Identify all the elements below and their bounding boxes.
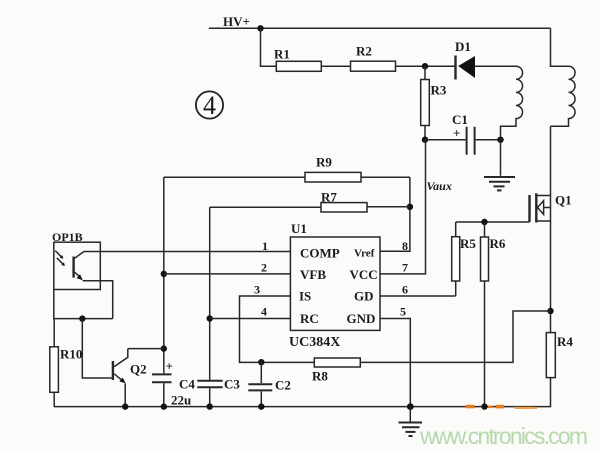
node GND bottom junction bbox=[407, 403, 414, 410]
svg-text:+: + bbox=[166, 359, 173, 374]
inductor secondary winding T1b bbox=[551, 66, 576, 126]
svg-text:R7: R7 bbox=[321, 190, 337, 205]
node R3/C1/Vaux junction bbox=[422, 137, 428, 143]
resistor R3 bbox=[421, 80, 430, 126]
node pin2 junction bbox=[161, 271, 167, 277]
label circled 4 bbox=[196, 91, 223, 120]
capacitor C1 bbox=[467, 127, 475, 155]
wire C4 bottom stem bbox=[163, 383, 165, 406]
resistor R8 bbox=[314, 358, 360, 367]
svg-text:R9: R9 bbox=[316, 155, 332, 170]
capacitor C3 bbox=[197, 381, 222, 388]
svg-text:OP1B: OP1B bbox=[52, 230, 83, 244]
resistor R7 bbox=[321, 203, 367, 212]
svg-text:VFB: VFB bbox=[300, 267, 326, 282]
svg-text:7: 7 bbox=[402, 261, 408, 275]
node R10/Q2 base junction bbox=[79, 315, 85, 321]
wire Q2 collector to VFB bus bbox=[128, 348, 164, 350]
svg-text:C3: C3 bbox=[224, 377, 240, 392]
resistor R10 bbox=[50, 319, 59, 407]
resistor R1 bbox=[276, 61, 321, 71]
wire pin 5 GND leg bbox=[380, 319, 410, 407]
wire pin 1 COMP bbox=[84, 251, 290, 253]
node R7/R9 right junction bbox=[407, 204, 413, 210]
resistor R9 bbox=[305, 172, 361, 182]
svg-text:5: 5 bbox=[400, 305, 406, 319]
svg-text:R8: R8 bbox=[312, 369, 328, 384]
svg-text:1: 1 bbox=[262, 239, 268, 253]
wire RC vertical bus bbox=[209, 207, 211, 379]
wire D1 to primary winding bbox=[475, 65, 516, 67]
svg-text:4: 4 bbox=[261, 305, 267, 319]
svg-text:R4: R4 bbox=[557, 334, 573, 349]
node C4 bottom junction bbox=[161, 403, 167, 409]
wire pin 8 Vref leg bbox=[380, 177, 410, 251]
resistor R5 bbox=[452, 237, 460, 281]
wire R3 bottom stem bbox=[424, 126, 426, 140]
inductor primary winding T1a bbox=[501, 66, 523, 140]
svg-text:RC: RC bbox=[300, 311, 319, 326]
node gate/R6 junction bbox=[481, 219, 487, 225]
svg-text:2: 2 bbox=[261, 261, 267, 275]
resistor R2 bbox=[351, 61, 396, 71]
wire R3 top stem bbox=[424, 66, 426, 79]
wire HV+ top rail bbox=[209, 27, 551, 29]
wire R8 left lead bbox=[261, 361, 314, 363]
capacitor C2 bbox=[248, 384, 272, 390]
node R3 top junction bbox=[422, 63, 428, 69]
node Q1 source/R4 junction bbox=[547, 308, 553, 314]
svg-text:COMP: COMP bbox=[300, 246, 340, 261]
wire pin 4 RC bbox=[210, 318, 291, 320]
svg-text:HV+: HV+ bbox=[223, 14, 250, 29]
node pin4 junction bbox=[207, 315, 213, 321]
wire top rail drop to secondary winding bbox=[551, 28, 569, 66]
optocoupler light arrow 2 bbox=[57, 258, 65, 266]
wire HV+ drop to R1 row bbox=[261, 28, 277, 66]
wire C1 right lead bbox=[476, 139, 501, 141]
node C2 bottom junction bbox=[258, 403, 264, 409]
wire pin 2 VFB bbox=[164, 273, 291, 275]
wire R6 top stem bbox=[484, 222, 486, 237]
svg-text:GND: GND bbox=[347, 311, 376, 326]
node Q2 emitter bottom junction bbox=[122, 403, 128, 409]
node C3 bottom junction bbox=[207, 403, 213, 409]
node C1/primary-bottom junction bbox=[497, 137, 503, 143]
wire current-sense feedback to R8 bbox=[360, 311, 550, 362]
svg-text:Vaux: Vaux bbox=[427, 179, 452, 193]
wire Q2 base drop bbox=[82, 319, 112, 378]
svg-text:UC384X: UC384X bbox=[289, 335, 340, 350]
wire Q1 gate run bbox=[456, 221, 530, 223]
transistor Q1 bbox=[530, 193, 551, 222]
wire R1 to R2 bbox=[321, 65, 350, 67]
svg-text:www.cntronics.com: www.cntronics.com bbox=[419, 423, 587, 449]
svg-text:IS: IS bbox=[299, 289, 311, 304]
node Q2 collector/C4 junction bbox=[161, 345, 167, 351]
svg-text:4: 4 bbox=[203, 91, 216, 120]
optocoupler OP1B box bbox=[54, 242, 101, 289]
svg-text:D1: D1 bbox=[455, 39, 471, 54]
wire R2 to D1 bbox=[396, 65, 456, 67]
wire R5 bottom to pin6 row bbox=[455, 281, 457, 296]
wire gate to R5 top bbox=[455, 222, 457, 237]
wire pin 6 GD bbox=[380, 295, 456, 297]
wire opto emitter lead bbox=[83, 281, 113, 319]
optocoupler phototransistor bbox=[74, 252, 84, 281]
svg-text:R3: R3 bbox=[431, 83, 447, 98]
capacitor C4 bbox=[152, 374, 172, 382]
wire pin 7 VCC leg / Vaux bus bbox=[380, 140, 426, 274]
resistor R6 bbox=[481, 237, 489, 281]
wire VFB vertical bus bbox=[163, 177, 165, 373]
transistor Q2 bbox=[113, 349, 128, 384]
svg-text:GD: GD bbox=[354, 289, 374, 304]
svg-text:8: 8 bbox=[402, 239, 408, 253]
svg-text:22u: 22u bbox=[171, 393, 191, 408]
wire C2 bottom stem bbox=[260, 391, 262, 406]
node IS/R8/C2 junction bbox=[258, 359, 264, 365]
optocoupler light arrow 1 bbox=[55, 251, 63, 259]
svg-text:R1: R1 bbox=[274, 47, 290, 62]
wire C2 top stem bbox=[260, 362, 262, 383]
svg-text:Q2: Q2 bbox=[130, 362, 147, 377]
svg-text:R5: R5 bbox=[460, 236, 476, 251]
svg-text:C4: C4 bbox=[179, 377, 195, 392]
svg-text:Q1: Q1 bbox=[555, 193, 572, 208]
wire C1 node to ground bbox=[500, 140, 502, 176]
ground main bbox=[399, 407, 423, 436]
wire opto box to R10 rail bbox=[54, 290, 113, 319]
wire R7 right lead bbox=[367, 206, 410, 208]
resistor R4 bbox=[546, 333, 555, 378]
op-amp U1 box bbox=[290, 237, 380, 330]
wire secondary bottom to Q1 drain and down to R4 bbox=[550, 126, 552, 332]
svg-text:6: 6 bbox=[402, 283, 408, 297]
svg-text:+: + bbox=[453, 126, 460, 141]
ground below C1 bbox=[484, 177, 515, 190]
node HV+ junction bbox=[257, 25, 263, 31]
wire R7 left lead bbox=[210, 206, 321, 208]
wire Q2 emitter to bottom rail bbox=[124, 383, 126, 406]
watermark orange marks bbox=[466, 405, 538, 409]
svg-text:R2: R2 bbox=[356, 44, 372, 59]
wire R4 bottom to bottom rail bbox=[54, 378, 551, 407]
svg-text:C2: C2 bbox=[275, 378, 291, 393]
svg-text:R6: R6 bbox=[490, 236, 506, 251]
wire R9 right lead bbox=[361, 176, 410, 178]
wire pin 3 IS leg bbox=[240, 296, 291, 362]
svg-text:U1: U1 bbox=[291, 221, 307, 236]
wire C1 left lead bbox=[425, 139, 466, 141]
diode D1 bbox=[456, 56, 476, 80]
node R6 bottom junction bbox=[481, 403, 487, 409]
svg-text:R10: R10 bbox=[60, 347, 82, 362]
svg-text:VCC: VCC bbox=[350, 267, 378, 282]
wire C3 bottom stem bbox=[209, 388, 211, 406]
wire R6 bottom to bottom rail bbox=[484, 281, 486, 407]
wire R9 left lead bbox=[164, 176, 305, 178]
svg-text:3: 3 bbox=[254, 283, 260, 297]
svg-text:Vref: Vref bbox=[354, 248, 375, 260]
